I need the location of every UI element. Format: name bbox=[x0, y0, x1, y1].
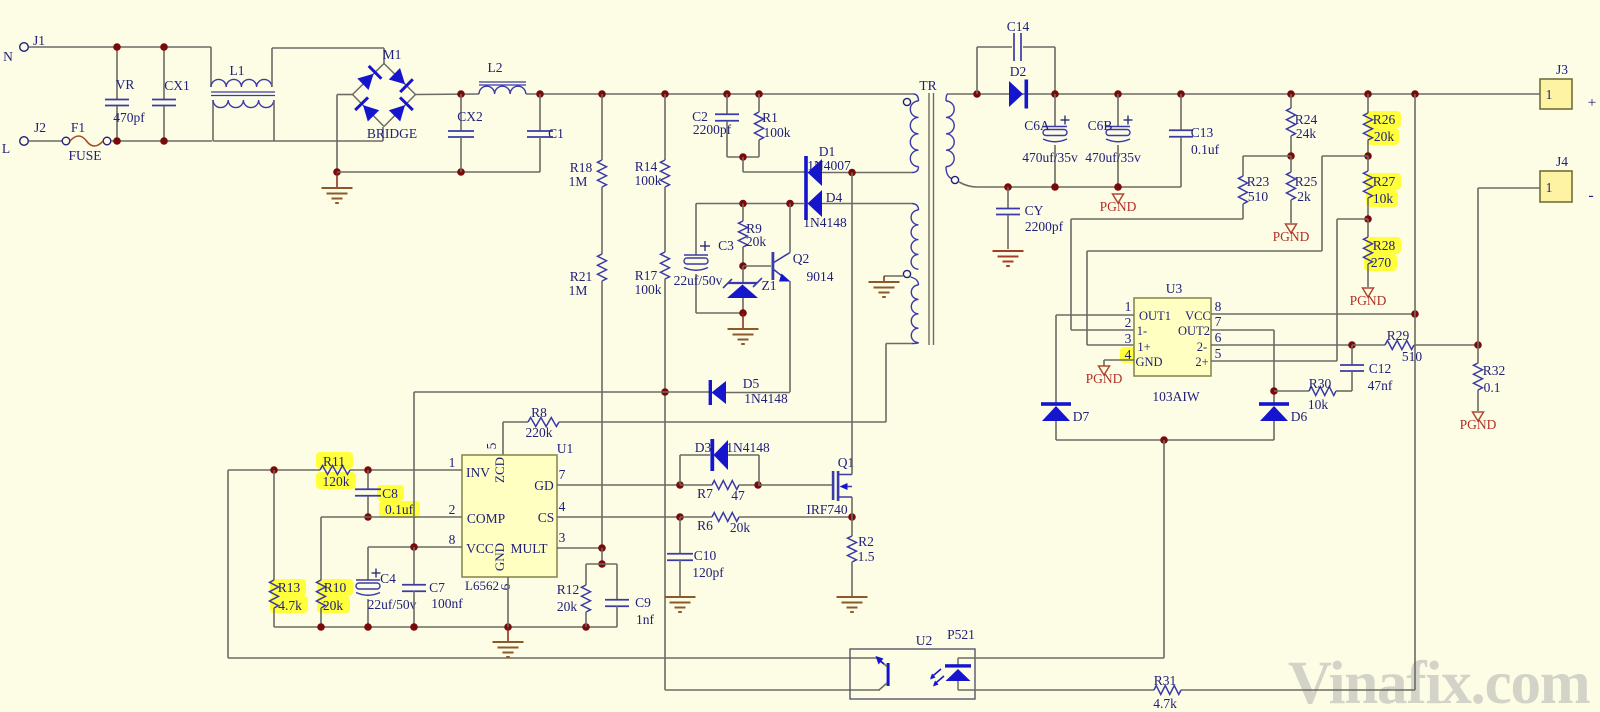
zener Z1 bbox=[742, 266, 744, 284]
resistor R1 bbox=[758, 94, 760, 112]
wire J2 to fuse bbox=[29, 140, 62, 142]
svg-text:2+: 2+ bbox=[1195, 355, 1208, 369]
junction U1 gnd bbox=[504, 623, 512, 631]
svg-text:R25: R25 bbox=[1295, 174, 1318, 189]
svg-text:TR: TR bbox=[919, 78, 936, 93]
junction GD node bbox=[676, 481, 684, 489]
svg-text:6: 6 bbox=[1215, 330, 1222, 345]
wire VCC drop from D5 bbox=[413, 392, 415, 547]
svg-text:7: 7 bbox=[559, 467, 566, 482]
capacitor C6B 470uf/35v bbox=[1117, 94, 1119, 126]
junction R12 gnd bbox=[582, 623, 590, 631]
transformer aux winding lower bbox=[911, 277, 919, 285]
svg-text:C6B: C6B bbox=[1088, 118, 1113, 133]
svg-text:GD: GD bbox=[534, 478, 554, 493]
svg-text:8: 8 bbox=[1215, 299, 1222, 314]
svg-text:C4: C4 bbox=[380, 571, 396, 586]
wire bridge minus to ground node bbox=[337, 94, 353, 96]
resistor R21 bbox=[598, 254, 607, 281]
diode D7 bbox=[1041, 402, 1071, 406]
capacitor CX2 bbox=[460, 94, 462, 131]
svg-text:100k: 100k bbox=[635, 282, 662, 297]
wire U3 pin1 OUT1 to D7 bbox=[1056, 314, 1134, 316]
junction R10 gnd bbox=[317, 623, 325, 631]
resistor R27 10k bbox=[1367, 156, 1369, 171]
connector J2 bbox=[20, 137, 29, 146]
capacitor C4 22uf/50v bbox=[367, 547, 369, 580]
resistor R9 20k bbox=[742, 204, 744, 222]
resistor R11 120k bbox=[320, 466, 350, 475]
svg-text:PGND: PGND bbox=[1273, 229, 1310, 244]
svg-text:OUT2: OUT2 bbox=[1178, 324, 1210, 338]
wire opto emitter net bbox=[665, 689, 880, 691]
svg-text:47: 47 bbox=[731, 488, 745, 503]
junction VCC C7 bbox=[410, 543, 418, 551]
phase dot secondary bbox=[951, 176, 958, 183]
junction opto feedback bbox=[1160, 436, 1168, 444]
wire L2 to primary bbox=[526, 93, 914, 95]
svg-text:1: 1 bbox=[1125, 299, 1132, 314]
transformer secondary winding bbox=[946, 94, 948, 101]
junction D2 anode bbox=[973, 90, 981, 98]
svg-text:R13: R13 bbox=[278, 580, 301, 595]
ground aux center tap bbox=[883, 276, 885, 282]
svg-text:2200pf: 2200pf bbox=[693, 122, 732, 137]
svg-text:2: 2 bbox=[1125, 315, 1132, 330]
wire analog ground rail bbox=[274, 626, 617, 628]
svg-text:C9: C9 bbox=[635, 595, 651, 610]
wire INV loop left side bbox=[227, 470, 229, 658]
wire secondary bottom to rail bbox=[959, 182, 977, 187]
capacitor C13 0.1uf bbox=[1180, 94, 1182, 130]
svg-text:270: 270 bbox=[1371, 255, 1392, 270]
svg-text:3: 3 bbox=[559, 530, 566, 545]
svg-text:1nf: 1nf bbox=[636, 612, 655, 627]
op-amp U3 103AIW dual comparator bbox=[1134, 298, 1211, 376]
svg-text:6: 6 bbox=[498, 583, 513, 590]
diode D6 bbox=[1259, 402, 1289, 406]
wire U3 pin4 GND bbox=[1104, 359, 1134, 361]
svg-text:L: L bbox=[2, 141, 10, 156]
svg-text:20k: 20k bbox=[730, 520, 751, 535]
svg-text:R11: R11 bbox=[323, 454, 345, 469]
svg-text:D3: D3 bbox=[695, 440, 712, 455]
wire ZCD pin stub bbox=[502, 422, 504, 455]
svg-text:D1: D1 bbox=[819, 144, 836, 159]
svg-text:120k: 120k bbox=[323, 474, 350, 489]
wire ZCD supply bbox=[414, 391, 709, 393]
svg-text:C14: C14 bbox=[1007, 19, 1030, 34]
svg-text:1: 1 bbox=[1546, 180, 1553, 195]
svg-text:R27: R27 bbox=[1373, 174, 1396, 189]
ground below CY bbox=[993, 250, 1024, 252]
junction R1 top bbox=[755, 90, 763, 98]
svg-text:C6A: C6A bbox=[1024, 118, 1050, 133]
wire R17 down to opto emitter rail bbox=[664, 279, 666, 690]
capacitor C12 47nf bbox=[1351, 345, 1353, 365]
resistor R23 510 bbox=[1242, 156, 1244, 176]
junction Z1 anode node bbox=[739, 309, 747, 317]
diode D2 bbox=[1009, 81, 1023, 107]
diode D5 1N4148 bbox=[709, 380, 712, 405]
svg-text:COMP: COMP bbox=[467, 511, 505, 526]
junction bridge ground bbox=[333, 168, 341, 176]
power ground below R28 bbox=[1363, 288, 1374, 297]
transformer aux winding upper bbox=[912, 204, 919, 211]
wire U3 pin8 VCC bbox=[1211, 313, 1415, 315]
junction R26 bottom bbox=[1364, 152, 1372, 160]
junction Q1 source node bbox=[848, 513, 856, 521]
svg-text:C7: C7 bbox=[429, 580, 445, 595]
ground below C10 bbox=[679, 596, 681, 597]
svg-text:R6: R6 bbox=[697, 518, 713, 533]
wire Q2 emitter down bbox=[789, 281, 791, 392]
wire R8 ZCD bbox=[503, 421, 528, 423]
svg-text:24k: 24k bbox=[1296, 126, 1317, 141]
junction R24 bottom bbox=[1287, 152, 1295, 160]
svg-text:R24: R24 bbox=[1295, 112, 1318, 127]
junction Q2 base node bbox=[739, 262, 747, 270]
wire down to opto collector bbox=[1163, 440, 1165, 658]
svg-text:R31: R31 bbox=[1154, 673, 1177, 688]
junction CY top bbox=[1004, 183, 1012, 191]
svg-text:N: N bbox=[3, 49, 13, 64]
diode D3 1N4148 loop bbox=[679, 455, 681, 485]
junction ZCD supply node bbox=[661, 388, 669, 396]
svg-text:4.7k: 4.7k bbox=[1153, 696, 1177, 711]
capacitor C9 1nf bbox=[616, 564, 618, 600]
svg-text:L1: L1 bbox=[230, 63, 245, 78]
connector J3 bbox=[1540, 79, 1572, 109]
junction Q1 drain branch bbox=[848, 169, 856, 177]
junction D6 R30 node bbox=[1270, 387, 1278, 395]
svg-text:C8: C8 bbox=[382, 486, 398, 501]
wire COMP net bbox=[321, 516, 462, 518]
resistor R17 bbox=[661, 252, 670, 279]
svg-text:OUT1: OUT1 bbox=[1139, 309, 1171, 323]
resistor R25 2k bbox=[1290, 156, 1292, 172]
wire GD pin bbox=[557, 484, 680, 486]
svg-text:1N4148: 1N4148 bbox=[726, 440, 770, 455]
svg-text:100k: 100k bbox=[635, 173, 662, 188]
svg-text:Vinafix.com: Vinafix.com bbox=[1288, 650, 1590, 712]
svg-text:20k: 20k bbox=[323, 598, 344, 613]
svg-text:2k: 2k bbox=[1297, 189, 1311, 204]
wire J4 to R29 node bbox=[1478, 187, 1540, 189]
wire R21 to MULT node bbox=[601, 281, 603, 548]
svg-text:C1: C1 bbox=[548, 126, 564, 141]
varistor VR bbox=[116, 47, 118, 99]
ground below Z1 bbox=[742, 313, 744, 329]
svg-text:L6562: L6562 bbox=[465, 578, 499, 593]
svg-text:L2: L2 bbox=[488, 60, 503, 75]
wire fuse to L1 bbox=[111, 140, 212, 142]
junction C7 gnd bbox=[410, 623, 418, 631]
junction VR bottom bbox=[113, 137, 121, 145]
svg-text:R10: R10 bbox=[324, 580, 347, 595]
svg-text:R17: R17 bbox=[635, 268, 658, 283]
wire D4 to aux winding bbox=[822, 203, 912, 205]
svg-text:MULT: MULT bbox=[510, 541, 548, 556]
svg-text:BRIDGE: BRIDGE bbox=[367, 126, 417, 141]
svg-text:9014: 9014 bbox=[807, 269, 834, 284]
wire U3 pin5 stub bbox=[1211, 360, 1337, 362]
resistor R29 510 bbox=[1352, 344, 1385, 346]
junction R11 right bbox=[364, 466, 372, 474]
svg-text:47nf: 47nf bbox=[1368, 378, 1393, 393]
wire LED cathode net bbox=[958, 657, 1164, 659]
resistor R2 1.5 bbox=[851, 517, 853, 536]
svg-text:470uf/35v: 470uf/35v bbox=[1085, 150, 1141, 165]
svg-text:D6: D6 bbox=[1291, 409, 1308, 424]
power ground secondary bbox=[1113, 194, 1124, 203]
wire L1 bottom to bridge bbox=[213, 140, 383, 142]
wire MULT to R12 C9 bbox=[601, 548, 603, 564]
svg-text:22uf/50v: 22uf/50v bbox=[674, 273, 723, 288]
svg-text:8: 8 bbox=[449, 532, 456, 547]
svg-text:C10: C10 bbox=[694, 548, 717, 563]
power ground below R25 bbox=[1286, 224, 1297, 233]
ground input rectifier bbox=[336, 172, 338, 188]
svg-text:D2: D2 bbox=[1010, 64, 1027, 79]
wire LED anode net bbox=[958, 689, 1154, 691]
power ground U3 bbox=[1099, 366, 1110, 375]
svg-text:0.1uf: 0.1uf bbox=[1191, 142, 1220, 157]
junction C4 gnd bbox=[364, 623, 372, 631]
svg-text:Z1: Z1 bbox=[762, 278, 777, 293]
svg-text:PGND: PGND bbox=[1350, 293, 1387, 308]
junction C2 top bbox=[723, 90, 731, 98]
svg-text:J2: J2 bbox=[34, 120, 46, 135]
junction R18 top bbox=[598, 90, 606, 98]
svg-text:1.5: 1.5 bbox=[858, 549, 875, 564]
power ground below R32 bbox=[1473, 412, 1484, 421]
svg-text:10k: 10k bbox=[1373, 191, 1394, 206]
wire R18 to R21 bbox=[601, 187, 603, 254]
junction R7 right bbox=[754, 481, 762, 489]
wire L1 top to bridge bbox=[272, 47, 384, 49]
junction CX1 top bbox=[160, 43, 168, 51]
svg-text:1: 1 bbox=[1546, 87, 1553, 102]
svg-text:100nf: 100nf bbox=[431, 596, 463, 611]
svg-text:PGND: PGND bbox=[1100, 199, 1137, 214]
opto LED bbox=[957, 658, 959, 665]
wire down to D1 anode wire bbox=[742, 157, 744, 172]
wire R14 to R17 bbox=[664, 187, 666, 252]
svg-text:20k: 20k bbox=[557, 599, 578, 614]
resistor R30 10k bbox=[1309, 387, 1336, 396]
diode D1 1N4007 bbox=[804, 156, 808, 188]
junction C6B bottom bbox=[1114, 183, 1122, 191]
svg-text:2200pf: 2200pf bbox=[1025, 219, 1064, 234]
wire R23 to U3 pin2 bbox=[1071, 218, 1243, 220]
wire R31 to VCC column bbox=[1181, 689, 1415, 691]
capacitor CX1 bbox=[163, 47, 165, 99]
svg-text:R30: R30 bbox=[1309, 376, 1332, 391]
resistor R12 20k bbox=[585, 564, 587, 585]
svg-text:D5: D5 bbox=[743, 376, 760, 391]
wire U3 pin7 OUT2 to D6 bbox=[1211, 329, 1274, 331]
svg-text:P521: P521 bbox=[947, 627, 975, 642]
svg-text:0.1: 0.1 bbox=[1484, 380, 1501, 395]
junction VCC column bbox=[1411, 310, 1419, 318]
resistor R6 20k bbox=[680, 516, 712, 518]
wire secondary ground rail bbox=[977, 186, 1181, 188]
capacitor C6A 470uf/35v bbox=[1054, 94, 1056, 126]
junction C13 top bbox=[1177, 90, 1185, 98]
wire R7 to gate bbox=[758, 484, 832, 486]
svg-text:IRF740: IRF740 bbox=[806, 502, 848, 517]
wire aux center tap bbox=[884, 275, 903, 277]
wire C3 bottom bbox=[696, 312, 743, 314]
bridge diode top-left bbox=[357, 74, 373, 90]
wire U1 GND pin stub bbox=[507, 577, 509, 627]
wire VCC supply column bbox=[1414, 94, 1416, 690]
wire U3 pin6 to R29 C12 bbox=[1211, 344, 1352, 346]
svg-text:CX2: CX2 bbox=[457, 109, 483, 124]
svg-text:2-: 2- bbox=[1197, 340, 1207, 354]
svg-text:J1: J1 bbox=[33, 33, 45, 48]
wire R26 R27 node to U3 pin3 bbox=[1322, 155, 1368, 157]
wire CS pin bbox=[557, 516, 680, 518]
junction C8 bottom bbox=[364, 513, 372, 521]
svg-text:510: 510 bbox=[1248, 189, 1269, 204]
svg-text:470pf: 470pf bbox=[113, 110, 145, 125]
svg-text:120pf: 120pf bbox=[692, 565, 724, 580]
junction VR top bbox=[113, 43, 121, 51]
bridge diode bottom-left bbox=[363, 105, 379, 121]
svg-text:CX1: CX1 bbox=[164, 78, 190, 93]
junction C12 R29 bbox=[1348, 341, 1356, 349]
svg-text:R1: R1 bbox=[762, 110, 778, 125]
junction C6A top bbox=[1051, 90, 1059, 98]
wire secondary positive rail bbox=[948, 93, 1540, 95]
svg-text:2: 2 bbox=[449, 502, 456, 517]
svg-text:F1: F1 bbox=[71, 120, 85, 135]
junction CX2 top bbox=[457, 90, 465, 98]
diode D4 1N4148 bbox=[804, 188, 808, 220]
junction CX2 bottom bbox=[457, 168, 465, 176]
svg-text:103AIW: 103AIW bbox=[1152, 389, 1199, 404]
svg-text:0.1uf: 0.1uf bbox=[385, 502, 414, 517]
optocoupler U2 P521 bbox=[850, 649, 975, 699]
junction R9 top bbox=[739, 200, 747, 208]
svg-text:INV: INV bbox=[466, 465, 490, 480]
junction R12 C9 top bbox=[598, 560, 606, 568]
connector J4 bbox=[1540, 171, 1572, 202]
wire rectified negative rail bbox=[337, 171, 540, 173]
capacitor C10 120pf bbox=[679, 517, 681, 553]
wire Q1 drain column bbox=[851, 173, 853, 475]
svg-text:U2: U2 bbox=[916, 633, 933, 648]
wire C2 R1 tee bbox=[727, 156, 759, 158]
svg-text:R32: R32 bbox=[1483, 363, 1506, 378]
junction Q2 collector bbox=[786, 200, 794, 208]
svg-text:R2: R2 bbox=[858, 534, 874, 549]
capacitor C3 22uf/50v bbox=[695, 204, 697, 256]
svg-text:20k: 20k bbox=[746, 234, 767, 249]
junction C6B top bbox=[1114, 90, 1122, 98]
svg-text:1M: 1M bbox=[569, 283, 588, 298]
wire J1 to filter bbox=[29, 46, 211, 48]
junction MULT node bbox=[598, 544, 606, 552]
capacitor CY 2200pf bbox=[1007, 187, 1009, 208]
svg-text:D7: D7 bbox=[1073, 409, 1090, 424]
svg-text:R7: R7 bbox=[697, 486, 713, 501]
svg-text:100k: 100k bbox=[764, 125, 791, 140]
svg-text:20k: 20k bbox=[1374, 129, 1395, 144]
svg-text:10k: 10k bbox=[1308, 397, 1329, 412]
svg-text:CY: CY bbox=[1025, 203, 1044, 218]
resistor R26 20k bbox=[1367, 94, 1369, 113]
svg-text:5: 5 bbox=[1215, 346, 1222, 361]
wire Q1 source bbox=[851, 497, 853, 517]
junction R27 bottom bbox=[1364, 215, 1372, 223]
svg-text:5: 5 bbox=[484, 442, 499, 449]
svg-text:C12: C12 bbox=[1369, 361, 1392, 376]
svg-text:1+: 1+ bbox=[1137, 340, 1150, 354]
transistor Q1 IRF740 MOSFET bbox=[832, 471, 835, 500]
svg-text:GND: GND bbox=[1135, 355, 1162, 369]
junction J3 branch bbox=[1411, 90, 1419, 98]
svg-text:U1: U1 bbox=[557, 441, 574, 456]
op-amp U1 L6562 PFC controller bbox=[462, 455, 557, 577]
svg-text:FUSE: FUSE bbox=[68, 148, 101, 163]
resistor R24 24k bbox=[1290, 94, 1292, 108]
wire D5 to Q2 emitter bbox=[726, 392, 790, 394]
junction R29 right bbox=[1474, 341, 1482, 349]
resistor R32 0.1 bbox=[1477, 345, 1479, 363]
transformer core bbox=[928, 93, 930, 345]
junction R11 left bbox=[270, 466, 278, 474]
wire C3 top rail bbox=[696, 203, 805, 205]
junction R14 top bbox=[661, 90, 669, 98]
wire R27 R28 node to U3 pin5 bbox=[1337, 218, 1368, 220]
wire D7 D6 bottom rail bbox=[1056, 439, 1274, 441]
opto phototransistor bbox=[887, 663, 890, 686]
resistor R13 4.7k bbox=[273, 470, 275, 580]
resistor R14 bbox=[664, 94, 666, 160]
svg-text:R21: R21 bbox=[570, 269, 593, 284]
svg-text:510: 510 bbox=[1402, 349, 1423, 364]
svg-text:C3: C3 bbox=[718, 238, 734, 253]
svg-text:PGND: PGND bbox=[1086, 371, 1123, 386]
wire INV net bbox=[228, 469, 320, 471]
svg-text:M1: M1 bbox=[383, 47, 402, 62]
connector J1 bbox=[20, 43, 29, 52]
bridge diode top-right bbox=[389, 68, 405, 84]
fuse F1 bbox=[62, 137, 70, 145]
capacitor C8 0.1uf bbox=[367, 470, 369, 489]
junction CS node bbox=[676, 513, 684, 521]
bridge rectifier M1 bbox=[353, 64, 385, 95]
svg-text:22uf/50v: 22uf/50v bbox=[368, 597, 417, 612]
ground below R2 bbox=[851, 596, 853, 597]
junction C2 R1 node bbox=[739, 153, 747, 161]
svg-text:Q2: Q2 bbox=[793, 251, 810, 266]
transistor Q2 9014 bbox=[772, 252, 775, 280]
svg-text:VCC: VCC bbox=[466, 541, 494, 556]
wire opto collector net bbox=[228, 657, 877, 659]
svg-text:PGND: PGND bbox=[1460, 417, 1497, 432]
svg-text:1M: 1M bbox=[569, 174, 588, 189]
svg-text:J4: J4 bbox=[1556, 154, 1568, 169]
resistor R7 47 bbox=[712, 481, 739, 490]
svg-text:C13: C13 bbox=[1191, 125, 1214, 140]
svg-text:1N4007: 1N4007 bbox=[807, 158, 851, 173]
wire VCC net bbox=[368, 546, 462, 548]
svg-text:GND: GND bbox=[492, 543, 507, 571]
